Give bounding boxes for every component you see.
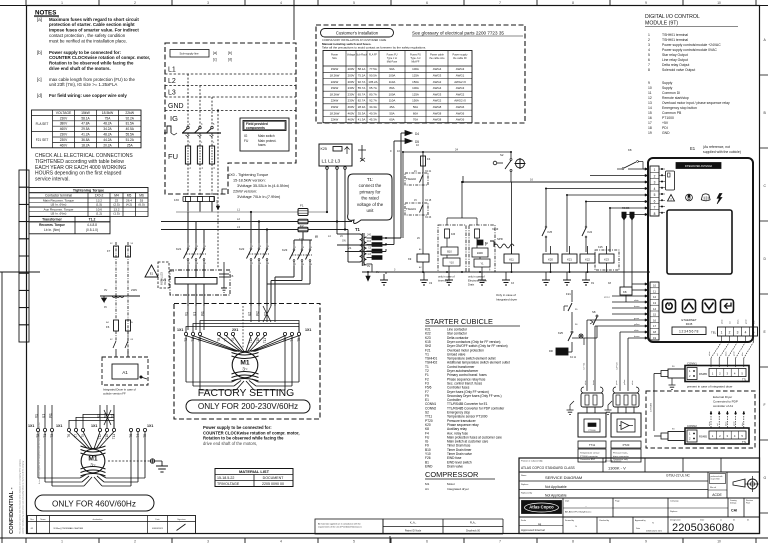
svg-text:drive end shaft of the motors,: drive end shaft of the motors, (203, 441, 257, 446)
svg-text:AWG2: AWG2 (456, 92, 465, 96)
svg-text:w-TT11: w-TT11 (584, 362, 586, 370)
svg-text:!: ! (670, 197, 671, 201)
svg-text:K8: K8 (623, 290, 627, 294)
svg-text:Electronic Water: Electronic Water (468, 279, 487, 283)
svg-text:8: 8 (648, 68, 650, 72)
svg-text:PT20: PT20 (623, 443, 630, 447)
svg-text:80.7A: 80.7A (369, 92, 377, 96)
svg-text:red: red (729, 321, 732, 324)
svg-text:+5V: +5V (662, 121, 669, 125)
svg-text:K3: K3 (511, 282, 515, 285)
svg-text:green: green (733, 351, 736, 356)
svg-text:M5: M5 (127, 194, 132, 198)
svg-text:yellow: yellow (624, 379, 626, 385)
svg-text:FACTORY SETTING: FACTORY SETTING (198, 388, 294, 399)
svg-text:K25: K25 (548, 230, 553, 234)
svg-text:20.2A: 20.2A (103, 143, 112, 147)
svg-text:1: 1 (61, 1, 63, 5)
svg-text:IG: IG (170, 114, 178, 123)
svg-text:(1.5): (1.5) (113, 212, 119, 216)
svg-text:53: 53 (131, 243, 134, 245)
svg-text:2: 2 (654, 174, 656, 178)
svg-text:18: 18 (648, 126, 652, 130)
svg-text:T11: T11 (112, 434, 116, 439)
svg-text:[d]: [d] (228, 58, 232, 62)
svg-text:90A: 90A (389, 67, 394, 71)
svg-text:1X1: 1X1 (147, 424, 153, 428)
svg-text:SERVICE DIAGRAM: SERVICE DIAGRAM (545, 475, 582, 480)
svg-text:GND: GND (662, 131, 670, 135)
svg-text:ATLASCOPCOItalySmart.x: ATLASCOPCOItalySmart.x (565, 511, 592, 514)
svg-text:230V: 230V (348, 86, 355, 90)
svg-text:COUNTER CLOCKwise rotation of: COUNTER CLOCKwise rotation of compr. mot… (49, 55, 150, 60)
svg-text:Power supply: Power supply (452, 54, 468, 57)
svg-text:Replace: Replace (670, 511, 678, 513)
svg-text:K22: K22 (585, 258, 590, 262)
svg-text:L3: L3 (237, 225, 240, 229)
svg-text:460V: 460V (348, 118, 355, 122)
svg-text:unit 23ft (7m), IG size >= 1.2: unit 23ft (7m), IG size >= 1.25xFLA (49, 82, 117, 87)
svg-text:K_A_: K_A_ (410, 521, 417, 525)
svg-text:Sub-supply line: Sub-supply line (179, 52, 199, 56)
svg-text:6: 6 (426, 1, 428, 5)
svg-text:1X1: 1X1 (56, 424, 62, 428)
svg-text:100A: 100A (389, 74, 396, 78)
svg-text:55.5A: 55.5A (126, 133, 135, 137)
svg-text:K23: K23 (604, 258, 609, 262)
svg-text:COMPRESSOR: COMPRESSOR (425, 470, 478, 479)
svg-text:F: F (764, 403, 766, 407)
svg-text:Approved Internal: Approved Internal (521, 528, 545, 532)
svg-text:230V: 230V (60, 133, 68, 137)
svg-text:RS485: RS485 (699, 435, 707, 439)
svg-text:13: 13 (653, 301, 657, 305)
svg-text:3~: 3~ (242, 367, 248, 372)
svg-text:(4.2): (4.2) (126, 203, 132, 207)
svg-text:present in case of integrated: present in case of integrated dryer (687, 385, 733, 389)
svg-text:(As reference, not: (As reference, not (703, 145, 730, 149)
svg-text:3: 3 (727, 434, 729, 438)
svg-text:L5: L5 (340, 235, 343, 238)
svg-text:K22: K22 (239, 247, 245, 251)
svg-text:C: C (764, 184, 767, 188)
svg-text:belongs: belongs (730, 503, 736, 505)
svg-text:K25: K25 (321, 147, 327, 151)
svg-text:125A: 125A (412, 92, 419, 96)
svg-text:460V: 460V (60, 143, 68, 147)
svg-text:3: 3 (201, 123, 203, 126)
svg-text:IG: IG (244, 134, 248, 138)
svg-text:T8: T8 (217, 338, 221, 342)
svg-text:Product or subassembly: Product or subassembly (521, 460, 542, 463)
svg-text:K23: K23 (282, 248, 288, 252)
svg-text:58.1A: 58.1A (358, 67, 366, 71)
svg-text:L1 L2 L3: L1 L2 L3 (322, 159, 341, 165)
svg-text:9: 9 (390, 149, 392, 153)
svg-text:92.7A: 92.7A (358, 80, 366, 84)
svg-text:green: green (615, 380, 618, 385)
svg-text:92.2A: 92.2A (126, 116, 135, 120)
svg-text:Common DI: Common DI (662, 91, 680, 95)
svg-text:1X0 - Tightening Torque: 1X0 - Tightening Torque (228, 173, 268, 177)
svg-text:X2 23: X2 23 (425, 216, 432, 219)
svg-text:Lb In. (Nm): Lb In. (Nm) (44, 228, 60, 232)
svg-text:F4: F4 (427, 157, 431, 161)
svg-text:3Voltage 35-53Lb In.(4-6.5Nm): 3Voltage 35-53Lb In.(4-6.5Nm) (237, 184, 290, 188)
svg-text:GTSU-22 UL NC: GTSU-22 UL NC (666, 474, 690, 478)
svg-text:3: 3 (394, 269, 396, 272)
svg-text:460V: 460V (348, 105, 355, 109)
svg-text:D4: D4 (415, 132, 419, 136)
svg-text:A1: A1 (419, 248, 422, 251)
svg-text:2: 2 (295, 264, 297, 266)
svg-text:L1: L1 (237, 208, 240, 212)
svg-text:Y10: Y10 (449, 262, 454, 265)
svg-text:M4: M4 (114, 194, 119, 198)
svg-text:Main switch: Main switch (258, 134, 275, 138)
svg-text:D: D (764, 257, 767, 261)
svg-text:3: 3 (207, 1, 209, 5)
svg-text:4: 4 (197, 263, 199, 265)
svg-text:RS485: RS485 (622, 207, 630, 210)
svg-text:6: 6 (214, 167, 216, 170)
svg-text:5: 5 (353, 539, 355, 543)
svg-text:35.3A: 35.3A (358, 111, 366, 115)
svg-text:C6: C6 (230, 274, 234, 278)
svg-text:1: 1 (61, 539, 63, 543)
svg-text:For field wiring: use copper w: For field wiring: use copper wire only (49, 93, 127, 98)
svg-text:AWG3: AWG3 (456, 67, 465, 71)
svg-text:S2: S2 (500, 153, 504, 157)
svg-text:T1: T1 (355, 227, 361, 232)
svg-text:A2: A2 (419, 266, 422, 269)
svg-text:18.2kW: 18.2kW (330, 74, 340, 78)
svg-text:V1: V1 (348, 246, 352, 250)
svg-text:1300K - V: 1300K - V (608, 466, 626, 471)
svg-text:45A: 45A (389, 105, 394, 109)
svg-text:Replace: Replace (521, 484, 529, 486)
svg-text:12345678: 12345678 (679, 330, 699, 334)
svg-text:K21: K21 (176, 247, 182, 251)
svg-text:AWG8: AWG8 (433, 118, 442, 122)
svg-text:Delta relay Output: Delta relay Output (662, 63, 689, 67)
svg-text:100A: 100A (412, 86, 419, 90)
svg-text:11: 11 (648, 91, 652, 95)
svg-text:%: % (575, 526, 577, 528)
svg-text:7: 7 (648, 63, 650, 67)
svg-text:voltage of the: voltage of the (357, 202, 384, 207)
svg-text:150A: 150A (412, 99, 419, 103)
svg-text:Connected to PDP: Connected to PDP (713, 400, 738, 404)
svg-text:GND: GND (168, 103, 184, 110)
svg-text:impose fuses of smarter value.: impose fuses of smarter value. For indir… (49, 28, 139, 33)
svg-text:70A: 70A (413, 118, 418, 122)
svg-text:18.2kW: 18.2kW (330, 92, 340, 96)
svg-text:16: 16 (648, 116, 652, 120)
svg-text:6: 6 (426, 539, 428, 543)
svg-text:2: 2 (689, 374, 691, 378)
svg-text:Power: Power (331, 54, 338, 57)
svg-text:6: 6 (205, 263, 207, 265)
svg-text:max cable length from protecti: max cable length from protection (FU) to… (49, 77, 135, 82)
svg-text:Motor: Motor (447, 482, 455, 486)
svg-text:green: green (634, 318, 639, 320)
svg-text:ONLY FOR 460V/60Hz: ONLY FOR 460V/60Hz (52, 500, 136, 509)
svg-text:unit: unit (366, 208, 374, 213)
svg-text:200V: 200V (348, 74, 355, 78)
svg-text:51.2A: 51.2A (126, 138, 135, 142)
svg-text:Take all the precautions to av: Take all the precautions to avoid contac… (322, 46, 426, 50)
svg-text:Rev: Rev (30, 519, 34, 521)
svg-text:52: 52 (110, 243, 113, 245)
svg-text:1: 1 (295, 247, 297, 249)
svg-text:AWG6: AWG6 (456, 118, 465, 122)
svg-text:200V: 200V (348, 80, 355, 84)
svg-text:Remote start/stop: Remote start/stop (662, 96, 689, 100)
svg-text:green: green (733, 421, 736, 426)
svg-text:C9: C9 (429, 282, 433, 285)
svg-text:Solenoid valve Output: Solenoid valve Output (662, 68, 695, 72)
svg-text:230V: 230V (60, 138, 68, 142)
svg-text:Emergency stop button: Emergency stop button (662, 106, 697, 110)
svg-text:13: 13 (648, 101, 652, 105)
svg-text:Type J or: Type J or (410, 57, 420, 60)
svg-text:18: 18 (653, 330, 657, 334)
svg-text:21: 21 (414, 170, 417, 173)
svg-text:2: 2 (729, 331, 731, 335)
svg-text:40.3A: 40.3A (369, 111, 377, 115)
svg-text:[a]: [a] (213, 51, 217, 55)
svg-text:Customer's Installation: Customer's Installation (336, 30, 379, 35)
svg-text:9: 9 (645, 1, 647, 5)
svg-text:TSHH01: TSHH01 (406, 207, 417, 211)
svg-text:L4: L4 (328, 235, 331, 238)
svg-text:8: 8 (654, 212, 656, 216)
svg-text:blue: blue (754, 320, 756, 324)
svg-text:CAI: CAI (731, 509, 737, 513)
svg-text:EWD: EWD (477, 252, 483, 255)
svg-text:EWD: EWD (425, 464, 433, 468)
svg-text:6: 6 (654, 199, 656, 203)
svg-text:MODULE (9T): MODULE (9T) (645, 21, 678, 27)
svg-text:9V: 9V (104, 306, 107, 309)
svg-text:TTL: TTL (742, 441, 747, 444)
svg-text:Patent ID Node: Patent ID Node (405, 530, 422, 533)
svg-text:mcp 17034: mcp 17034 (711, 479, 720, 481)
svg-text:External Dryer: External Dryer (713, 395, 732, 399)
svg-text:Power supply to be connected f: Power supply to be connected for: (203, 425, 272, 430)
svg-text:M1: M1 (425, 482, 430, 486)
svg-text:(6.0): (6.0) (138, 203, 144, 207)
svg-text:5: 5 (648, 53, 650, 57)
svg-text:AWG3: AWG3 (456, 86, 465, 90)
svg-text:11: 11 (653, 289, 656, 293)
svg-text:5: 5 (311, 247, 313, 249)
svg-text:4: 4 (260, 263, 262, 265)
svg-text:77.5A: 77.5A (369, 67, 377, 71)
svg-text:48.2A: 48.2A (103, 122, 112, 126)
svg-text:black: black (725, 422, 727, 426)
svg-text:2: 2 (252, 263, 254, 265)
svg-text:L3: L3 (168, 90, 176, 97)
svg-text:RJ45: RJ45 (686, 322, 693, 326)
svg-text:K15: K15 (598, 245, 603, 249)
svg-text:DOCUMENT: DOCUMENT (263, 476, 285, 480)
svg-text:Drywheck 00: Drywheck 00 (466, 530, 480, 533)
svg-text:LB In. (Nm): LB In. (Nm) (51, 212, 67, 216)
svg-text:Rotation to be observed while: Rotation to be observed while facing the (203, 436, 284, 441)
svg-text:W Mod_PN255RAD CASTIER: W Mod_PN255RAD CASTIER (54, 527, 84, 530)
svg-text:Power cable: Power cable (430, 54, 444, 57)
svg-text:S8: S8 (592, 310, 596, 314)
svg-text:X2 15: X2 15 (425, 199, 432, 202)
svg-text:E1: E1 (690, 146, 696, 151)
svg-text:10: 10 (717, 1, 721, 5)
svg-text:All materials supplied are in: All materials supplied are in compliance… (318, 523, 361, 526)
svg-text:M1: M1 (240, 360, 249, 367)
svg-text:16: 16 (653, 318, 657, 322)
svg-text:3: 3 (737, 331, 739, 335)
svg-text:22kW version:: 22kW version: (233, 190, 257, 194)
svg-text:LB In. (Nm): LB In. (Nm) (51, 203, 67, 207)
svg-text:5: 5 (741, 372, 743, 376)
svg-text:8: 8 (572, 539, 574, 543)
svg-text:A1: A1 (122, 370, 128, 375)
svg-text:INTEGRATED ANTENNA: INTEGRATED ANTENNA (685, 165, 713, 168)
svg-text:drive end shaft of the motors.: drive end shaft of the motors. (49, 66, 111, 71)
svg-text:17: 17 (648, 121, 652, 125)
svg-text:(1.5): (1.5) (96, 203, 102, 207)
svg-text:FU: FU (168, 152, 178, 161)
svg-text:2: 2 (689, 437, 691, 441)
svg-text:100A: 100A (412, 67, 419, 71)
svg-text:F2: F2 (171, 269, 175, 273)
svg-text:01: 01 (747, 520, 750, 522)
svg-text:AWG3: AWG3 (433, 74, 442, 78)
svg-text:62: 62 (110, 339, 113, 341)
svg-text:3: 3 (201, 142, 203, 144)
svg-text:Name: Name (40, 519, 46, 521)
svg-text:ACDE: ACDE (712, 493, 722, 497)
svg-text:black: black (725, 352, 727, 356)
svg-text:the cable FF: the cable FF (453, 57, 467, 60)
svg-text:AWG1: AWG1 (456, 74, 465, 78)
svg-text:6: 6 (268, 263, 270, 265)
svg-text:AWG8: AWG8 (433, 111, 442, 115)
svg-text:TSHH01 terminal: TSHH01 terminal (662, 38, 688, 42)
svg-text:19: 19 (648, 131, 652, 135)
svg-text:19: 19 (653, 336, 657, 340)
svg-text:B4: B4 (106, 322, 109, 324)
svg-text:47.8A: 47.8A (81, 122, 90, 126)
svg-text:Not Applicable: Not Applicable (545, 485, 567, 489)
svg-text:3Voltage 70Lb In.(7.9Nm): 3Voltage 70Lb In.(7.9Nm) (237, 195, 281, 199)
svg-text:components: components (246, 126, 265, 130)
svg-text:2X1: 2X1 (232, 328, 238, 332)
svg-text:4: 4 (654, 187, 656, 191)
svg-text:A: A (764, 38, 767, 42)
svg-text:1: 1 (189, 123, 191, 126)
svg-text:AWG2: AWG2 (433, 80, 442, 84)
svg-text:15: 15 (653, 313, 657, 317)
svg-text:150A: 150A (412, 80, 419, 84)
svg-text:1: 1 (654, 168, 656, 172)
svg-text:Size: Size (332, 57, 337, 60)
svg-text:FLA SET: FLA SET (36, 122, 49, 126)
svg-text:Common PB: Common PB (662, 111, 682, 115)
svg-text:1X1: 1X1 (91, 424, 97, 428)
svg-text:Company: Company (670, 501, 679, 503)
svg-text:Dept: Dept (565, 500, 570, 503)
svg-text:service interval.: service interval. (35, 177, 70, 183)
svg-text:2205 0090 00: 2205 0090 00 (262, 482, 284, 486)
svg-text:B1: B1 (485, 242, 489, 245)
svg-text:4: 4 (280, 539, 282, 543)
svg-text:Fuses FU: Fuses FU (387, 54, 398, 57)
svg-text:82.7A: 82.7A (358, 99, 366, 103)
svg-text:0C0: 0C0 (367, 241, 372, 243)
svg-text:ATLAS COPCO STANDARD CLASS: ATLAS COPCO STANDARD CLASS (521, 466, 576, 470)
svg-text:22kW: 22kW (331, 99, 339, 103)
svg-text:Approved by: Approved by (635, 519, 646, 522)
svg-text:7: 7 (499, 539, 501, 543)
svg-text:[c]: [c] (37, 77, 42, 82)
svg-text:Line relay Output: Line relay Output (662, 58, 688, 62)
svg-text:4: 4 (745, 331, 747, 335)
svg-text:Contactor terminal: Contactor terminal (45, 194, 72, 198)
svg-text:white: white (584, 381, 587, 385)
svg-text:1: 1 (252, 246, 254, 248)
svg-text:blue: blue (742, 352, 744, 356)
svg-text:01: 01 (31, 528, 34, 530)
svg-text:18.2kW: 18.2kW (330, 111, 340, 115)
svg-text:Y1: Y1 (480, 263, 484, 266)
svg-text:2: 2 (134, 539, 136, 543)
svg-text:Mid-FF: Mid-FF (412, 61, 420, 64)
svg-text:F6: F6 (106, 325, 110, 329)
svg-text:[b]: [b] (37, 50, 42, 55)
svg-text:125A: 125A (412, 74, 419, 78)
svg-text:15: 15 (648, 111, 652, 115)
svg-text:Integrated dryer: Integrated dryer (496, 298, 517, 302)
svg-text:Pressure trans-: Pressure trans- (613, 452, 628, 455)
svg-text:40.5A: 40.5A (126, 127, 135, 131)
svg-text:TSHH02: TSHH02 (406, 177, 417, 181)
svg-text:240: 240 (367, 235, 372, 237)
svg-text:Transformer: Transformer (42, 217, 62, 221)
svg-text:(0.5-1.0): (0.5-1.0) (86, 228, 98, 232)
svg-text:AWG2 /0: AWG2 /0 (454, 80, 466, 84)
svg-text:22kW: 22kW (331, 80, 339, 84)
svg-text:..: .. (585, 504, 587, 508)
svg-text:1X1: 1X1 (28, 424, 34, 428)
svg-text:230V: 230V (131, 288, 137, 292)
svg-text:1: 1 (189, 246, 191, 248)
svg-text:Formed by: Formed by (565, 519, 574, 522)
svg-text:3: 3 (648, 43, 650, 47)
svg-text:PT1000 connector: PT1000 connector (580, 455, 598, 458)
svg-text:T1:: T1: (367, 177, 373, 182)
svg-text:460V: 460V (348, 111, 355, 115)
svg-text:1: 1 (721, 331, 723, 335)
svg-text:DIGITAL I/O CONTROL: DIGITAL I/O CONTROL (645, 14, 700, 20)
svg-text:to RS485: to RS485 (650, 402, 653, 412)
svg-text:M6: M6 (139, 194, 144, 198)
svg-text:FLA FF: FLA FF (369, 54, 378, 57)
svg-text:460V: 460V (60, 127, 68, 131)
svg-text:L2: L2 (237, 217, 240, 221)
svg-text:INSTALLED: INSTALLED (161, 272, 164, 285)
